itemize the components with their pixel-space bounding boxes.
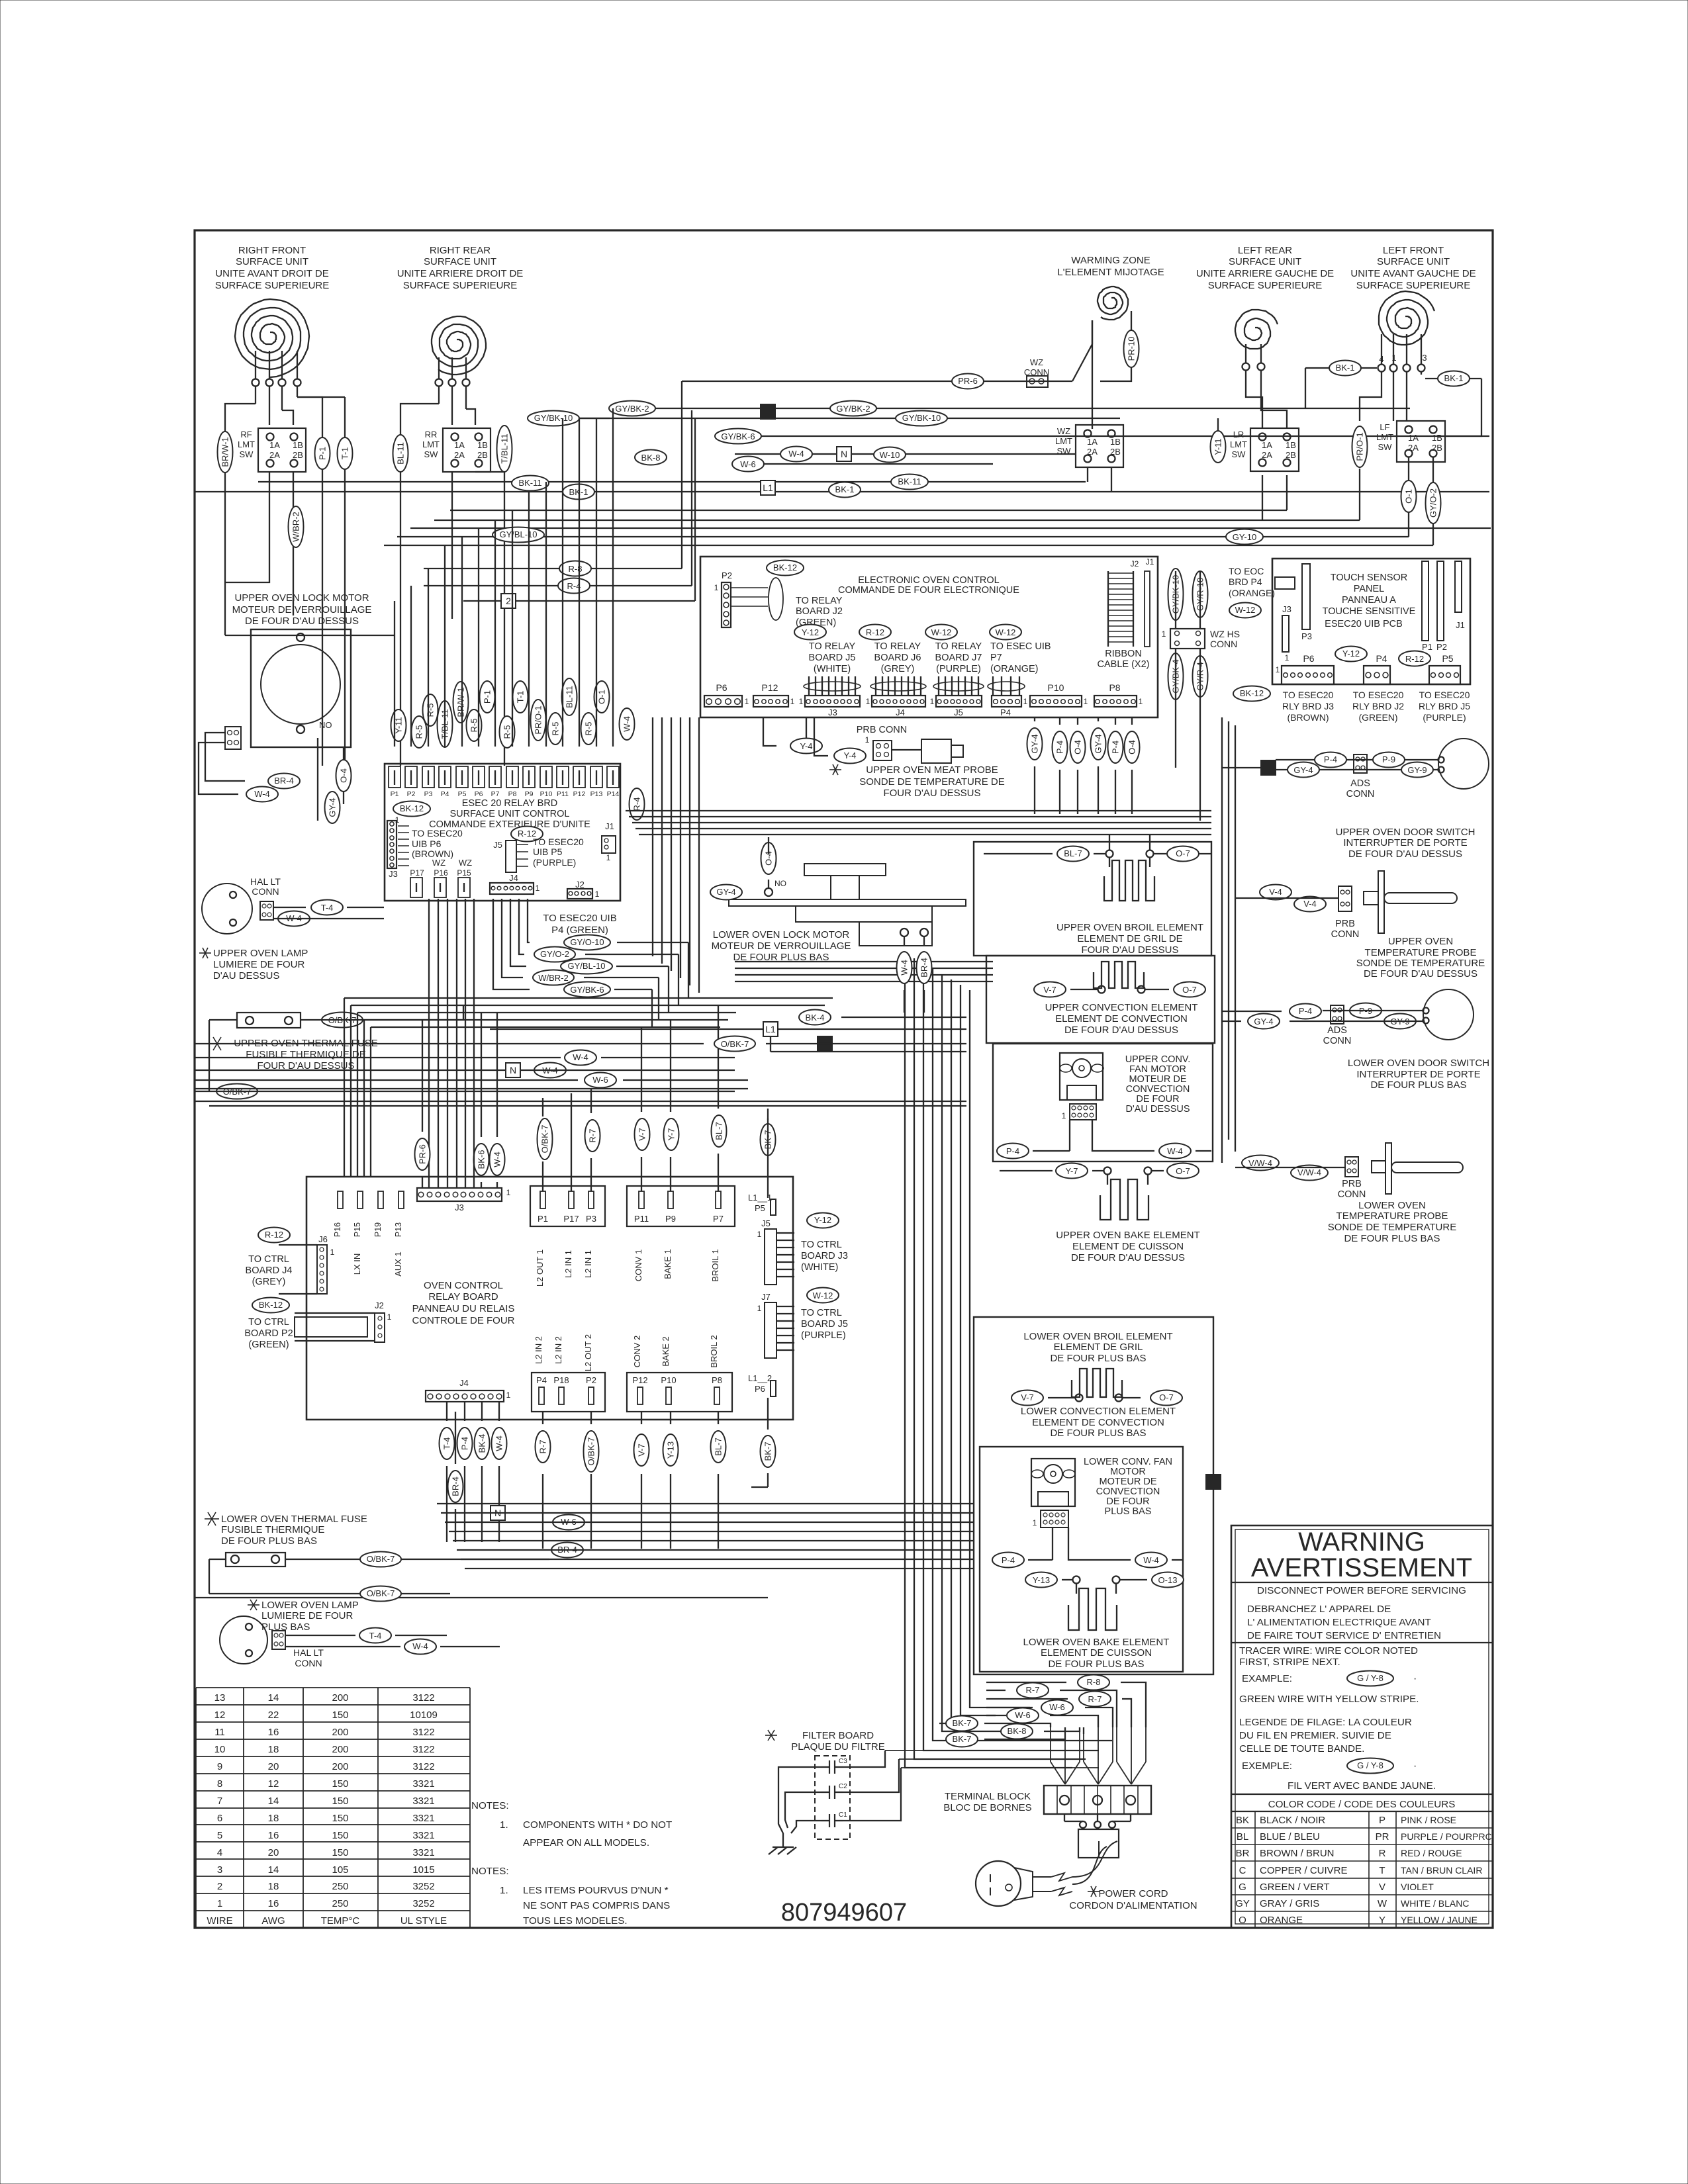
svg-text:RIBBON: RIBBON	[1105, 649, 1142, 659]
svg-text:TO CTRL: TO CTRL	[248, 1317, 289, 1328]
svg-text:PANNEAU DU RELAIS: PANNEAU DU RELAIS	[412, 1303, 515, 1314]
svg-text:C2: C2	[839, 1783, 847, 1790]
svg-text:W: W	[1378, 1898, 1387, 1909]
svg-text:BK-11: BK-11	[518, 478, 541, 488]
svg-text:14: 14	[268, 1796, 279, 1807]
svg-text:R-5: R-5	[502, 725, 512, 739]
svg-text:1: 1	[1276, 665, 1280, 674]
svg-text:BR: BR	[1236, 1848, 1250, 1859]
svg-text:1: 1	[790, 697, 795, 706]
svg-text:RF: RF	[240, 430, 252, 439]
svg-text:150: 150	[332, 1778, 348, 1790]
svg-text:2A: 2A	[269, 450, 280, 460]
svg-text:BK-7: BK-7	[953, 1734, 972, 1744]
svg-text:1: 1	[1285, 653, 1289, 662]
svg-text:L2 IN 2: L2 IN 2	[553, 1336, 563, 1364]
svg-text:16: 16	[268, 1727, 279, 1738]
svg-text:P4: P4	[536, 1375, 547, 1385]
svg-text:(GREY): (GREY)	[881, 664, 915, 674]
svg-text:V/W-4: V/W-4	[1297, 1167, 1321, 1177]
svg-text:WZ: WZ	[1057, 426, 1070, 436]
svg-text:LOWER OVEN BROIL ELEMENT: LOWER OVEN BROIL ELEMENT	[1023, 1331, 1172, 1342]
svg-text:UNITE AVANT DROIT DE: UNITE AVANT DROIT DE	[215, 268, 328, 279]
svg-text:3321: 3321	[412, 1778, 434, 1790]
svg-text:W-4: W-4	[573, 1052, 588, 1062]
svg-text:BK-12: BK-12	[1240, 688, 1264, 698]
svg-text:DE FAIRE TOUT SERVICE D' E: DE FAIRE TOUT SERVICE D' ENTRETIEN	[1247, 1630, 1441, 1641]
svg-text:·: ·	[1413, 1673, 1417, 1684]
svg-text:1: 1	[1084, 697, 1088, 706]
svg-text:FIL VERT AVEC BANDE JAUNE.: FIL VERT AVEC BANDE JAUNE.	[1288, 1780, 1436, 1792]
svg-text:W-4: W-4	[900, 960, 910, 976]
svg-text:J1: J1	[605, 821, 614, 831]
svg-text:P19: P19	[373, 1222, 383, 1237]
svg-text:DE FOUR PLUS BAS: DE FOUR PLUS BAS	[221, 1535, 317, 1547]
svg-text:2: 2	[217, 1881, 222, 1892]
svg-text:RED / ROUGE: RED / ROUGE	[1401, 1848, 1462, 1858]
svg-text:PR/O-1: PR/O-1	[534, 705, 543, 734]
svg-text:150: 150	[332, 1709, 348, 1721]
svg-text:NO: NO	[774, 879, 786, 888]
svg-text:TO ESEC20: TO ESEC20	[1353, 690, 1404, 700]
svg-text:3: 3	[1422, 353, 1427, 363]
svg-text:1: 1	[536, 884, 540, 893]
svg-text:3122: 3122	[412, 1692, 434, 1704]
svg-text:BLOC DE BORNES: BLOC DE BORNES	[943, 1802, 1031, 1813]
svg-text:V-7: V-7	[637, 1443, 647, 1457]
svg-text:TOUS LES MODELES.: TOUS LES MODELES.	[523, 1915, 628, 1927]
svg-text:AWG: AWG	[261, 1915, 285, 1927]
svg-text:1A: 1A	[269, 440, 280, 450]
svg-text:PANEL: PANEL	[1354, 584, 1384, 594]
svg-text:250: 250	[332, 1881, 348, 1892]
svg-text:BAKE 1: BAKE 1	[663, 1249, 673, 1279]
svg-text:3122: 3122	[412, 1744, 434, 1755]
svg-text:807949607: 807949607	[781, 1899, 907, 1927]
svg-text:PINK / ROSE: PINK / ROSE	[1401, 1815, 1456, 1825]
svg-text:J2: J2	[375, 1300, 384, 1310]
svg-text:O/BK-7: O/BK-7	[367, 1588, 395, 1598]
svg-text:NOTES:: NOTES:	[471, 1800, 509, 1811]
svg-text:1: 1	[1023, 697, 1028, 706]
svg-text:P12: P12	[762, 682, 778, 693]
svg-text:LMT: LMT	[1376, 432, 1393, 442]
svg-text:YELLOW / JAUNE: YELLOW / JAUNE	[1401, 1915, 1477, 1925]
svg-text:9: 9	[217, 1761, 222, 1772]
svg-text:TO RELAY: TO RELAY	[809, 641, 856, 652]
svg-text:13: 13	[214, 1692, 226, 1704]
svg-text:W-4: W-4	[788, 449, 804, 459]
svg-text:3321: 3321	[412, 1813, 434, 1824]
svg-text:BK-7: BK-7	[953, 1718, 972, 1728]
svg-text:R-7: R-7	[1026, 1685, 1040, 1695]
svg-text:P-4: P-4	[1006, 1146, 1019, 1156]
svg-text:BRD P4: BRD P4	[1229, 576, 1262, 587]
svg-text:Y-13: Y-13	[1033, 1575, 1050, 1585]
svg-text:GY-4: GY-4	[716, 887, 735, 897]
svg-text:(ORANGE): (ORANGE)	[990, 664, 1039, 674]
svg-text:J2: J2	[575, 880, 585, 889]
svg-text:1: 1	[930, 697, 935, 706]
svg-text:200: 200	[332, 1692, 348, 1704]
svg-text:PRB: PRB	[1335, 919, 1355, 929]
svg-text:GY/BK-10: GY/BK-10	[902, 413, 941, 423]
svg-text:D'AU DESSUS: D'AU DESSUS	[1125, 1104, 1190, 1115]
svg-text:BK-1: BK-1	[1336, 363, 1355, 373]
svg-text:18: 18	[268, 1813, 279, 1824]
svg-text:DE FOUR PLUS BAS: DE FOUR PLUS BAS	[1344, 1233, 1440, 1244]
svg-text:T: T	[1379, 1865, 1385, 1876]
svg-text:P6: P6	[716, 682, 727, 693]
svg-text:11: 11	[214, 1727, 225, 1738]
svg-text:SURFACE UNIT: SURFACE UNIT	[1377, 256, 1450, 267]
svg-text:2B: 2B	[1432, 443, 1442, 453]
svg-text:2A: 2A	[1087, 447, 1098, 457]
svg-text:W-6: W-6	[1049, 1702, 1065, 1712]
svg-text:UNITE ARRIERE DROIT DE: UNITE ARRIERE DROIT DE	[397, 268, 524, 279]
svg-text:PR/O-1: PR/O-1	[1355, 432, 1365, 461]
svg-text:P9: P9	[665, 1214, 676, 1224]
svg-text:COMMANDE DE FOUR ELECTRONIQUE: COMMANDE DE FOUR ELECTRONIQUE	[838, 585, 1019, 596]
svg-text:CONVECTION: CONVECTION	[1096, 1486, 1160, 1497]
svg-text:UIB P6: UIB P6	[412, 839, 442, 849]
svg-text:GY/BK-6: GY/BK-6	[721, 432, 755, 441]
svg-text:LMT: LMT	[1230, 439, 1247, 449]
svg-text:O-7: O-7	[1182, 985, 1197, 995]
svg-text:PR-6: PR-6	[418, 1144, 428, 1164]
svg-text:1B: 1B	[1432, 433, 1442, 443]
svg-text:T/BL-11: T/BL-11	[500, 433, 510, 463]
svg-text:P10: P10	[1048, 682, 1064, 693]
svg-text:BOARD J6: BOARD J6	[874, 653, 921, 663]
svg-text:LUMIERE DE FOUR: LUMIERE DE FOUR	[213, 959, 305, 970]
svg-text:V/W-4: V/W-4	[1248, 1158, 1272, 1168]
svg-text:CONTROLE DE FOUR: CONTROLE DE FOUR	[412, 1315, 514, 1326]
svg-text:LOWER OVEN LOCK MOTOR: LOWER OVEN LOCK MOTOR	[713, 929, 850, 940]
svg-text:GY/BK-2: GY/BK-2	[615, 404, 649, 414]
svg-text:W-4: W-4	[492, 1152, 502, 1167]
svg-text:10109: 10109	[410, 1709, 438, 1721]
svg-text:P3: P3	[424, 790, 433, 798]
svg-text:J5: J5	[761, 1218, 771, 1228]
svg-text:1.: 1.	[500, 1885, 508, 1896]
svg-text:BOARD J7: BOARD J7	[935, 653, 982, 663]
svg-text:ELEMENT DE CUISSON: ELEMENT DE CUISSON	[1041, 1647, 1152, 1659]
svg-text:2B: 2B	[477, 450, 488, 460]
svg-text:T-4: T-4	[321, 903, 334, 913]
svg-text:P12: P12	[632, 1375, 647, 1385]
svg-text:1: 1	[606, 853, 611, 862]
svg-text:UL STYLE: UL STYLE	[400, 1915, 447, 1927]
svg-text:SW: SW	[424, 449, 439, 459]
svg-text:200: 200	[332, 1761, 348, 1772]
svg-text:DE FOUR D'AU DESSUS: DE FOUR D'AU DESSUS	[1348, 848, 1462, 860]
svg-text:P-4: P-4	[1299, 1006, 1312, 1016]
svg-text:P13: P13	[394, 1222, 403, 1237]
svg-text:BK-1: BK-1	[1444, 373, 1464, 383]
svg-text:(GREEN): (GREEN)	[1358, 712, 1397, 723]
svg-text:3321: 3321	[412, 1796, 434, 1807]
svg-text:D'AU DESSUS: D'AU DESSUS	[213, 970, 279, 981]
svg-text:V-4: V-4	[1303, 899, 1317, 909]
svg-text:L2 IN 1: L2 IN 1	[563, 1250, 573, 1278]
svg-text:5: 5	[217, 1830, 222, 1841]
svg-text:BR-4: BR-4	[274, 776, 294, 786]
svg-text:T-4: T-4	[442, 1437, 452, 1450]
svg-text:BL-7: BL-7	[714, 1122, 724, 1140]
svg-text:J3: J3	[1282, 604, 1291, 614]
svg-text:O-7: O-7	[1176, 1166, 1190, 1176]
svg-text:1: 1	[1162, 629, 1166, 639]
svg-text:P3: P3	[1301, 631, 1312, 641]
svg-text:RLY BRD J3: RLY BRD J3	[1282, 701, 1334, 711]
svg-text:GY-4: GY-4	[1030, 734, 1040, 753]
svg-text:W-4: W-4	[254, 789, 270, 799]
svg-text:COMPONENTS WITH * DO NOT: COMPONENTS WITH * DO NOT	[523, 1819, 672, 1831]
svg-text:PLUS BAS: PLUS BAS	[1105, 1506, 1152, 1517]
svg-text:SONDE DE TEMPERATURE DE: SONDE DE TEMPERATURE DE	[859, 776, 1004, 788]
svg-text:BROIL 2: BROIL 2	[709, 1335, 719, 1367]
svg-text:12: 12	[214, 1709, 226, 1721]
svg-text:GY/O-10: GY/O-10	[570, 937, 604, 947]
svg-text:CONN: CONN	[295, 1658, 322, 1668]
svg-text:LEGENDE DE FILAGE: LA COULEUR: LEGENDE DE FILAGE: LA COULEUR	[1239, 1717, 1412, 1728]
svg-text:O-7: O-7	[1159, 1392, 1174, 1402]
svg-text:TO ESEC20: TO ESEC20	[1283, 690, 1334, 700]
svg-text:CORDON D'ALIMENTATION: CORDON D'ALIMENTATION	[1069, 1900, 1197, 1911]
svg-text:4: 4	[217, 1847, 222, 1858]
svg-text:18: 18	[268, 1744, 279, 1755]
svg-text:APPEAR ON ALL MODELS.: APPEAR ON ALL MODELS.	[523, 1837, 649, 1848]
svg-text:BR/W-1: BR/W-1	[220, 437, 230, 467]
svg-text:GY-4: GY-4	[328, 797, 338, 817]
svg-text:P4 (GREEN): P4 (GREEN)	[551, 925, 608, 936]
svg-text:(PURPLE): (PURPLE)	[801, 1330, 846, 1341]
svg-text:UPPER OVEN: UPPER OVEN	[1388, 936, 1453, 947]
svg-text:L1: L1	[765, 1024, 776, 1034]
svg-text:TOUCHE SENSITIVE: TOUCHE SENSITIVE	[1323, 606, 1416, 617]
svg-text:3252: 3252	[412, 1881, 434, 1892]
svg-text:LEFT REAR: LEFT REAR	[1238, 245, 1292, 256]
svg-text:UIB P5: UIB P5	[533, 846, 563, 857]
svg-text:1: 1	[1139, 697, 1143, 706]
svg-text:L2 IN 1: L2 IN 1	[583, 1250, 593, 1278]
svg-text:SURFACE UNIT: SURFACE UNIT	[1229, 256, 1301, 267]
svg-text:INTERRUPTER DE PORTE: INTERRUPTER DE PORTE	[1343, 837, 1467, 848]
svg-text:LOWER OVEN LAMP: LOWER OVEN LAMP	[261, 1600, 359, 1611]
svg-text:L2 OUT 1: L2 OUT 1	[535, 1250, 545, 1287]
svg-text:DEBRANCHEZ L' APPAREL DE: DEBRANCHEZ L' APPAREL DE	[1247, 1604, 1391, 1615]
svg-text:P17: P17	[563, 1214, 579, 1224]
svg-text:UPPER OVEN LAMP: UPPER OVEN LAMP	[213, 948, 308, 959]
svg-text:P-1: P-1	[318, 447, 328, 460]
svg-text:BK-1: BK-1	[835, 484, 855, 494]
svg-text:CONVECTION: CONVECTION	[1126, 1084, 1190, 1095]
svg-text:DU FIL EN PREMIER. SUIVIE: DU FIL EN PREMIER. SUIVIE DE	[1239, 1730, 1391, 1741]
svg-text:RELAY BOARD: RELAY BOARD	[428, 1291, 498, 1302]
svg-text:UPPER CONV.: UPPER CONV.	[1125, 1054, 1191, 1065]
svg-text:TO EOC: TO EOC	[1229, 566, 1264, 576]
svg-text:TO RELAY: TO RELAY	[874, 641, 921, 652]
svg-text:COLOR CODE / CODE DES COULEUR: COLOR CODE / CODE DES COULEURS	[1268, 1799, 1456, 1810]
svg-text:P16: P16	[434, 868, 448, 878]
svg-text:BROIL 1: BROIL 1	[710, 1249, 720, 1281]
svg-text:P: P	[1379, 1815, 1385, 1826]
svg-text:R-5: R-5	[551, 722, 561, 736]
svg-text:LMT: LMT	[422, 439, 440, 449]
svg-text:V-7: V-7	[637, 1128, 647, 1141]
svg-text:BOARD J3: BOARD J3	[801, 1251, 848, 1261]
svg-text:BL-11: BL-11	[565, 686, 575, 708]
svg-text:SURFACE UNIT CONTROL: SURFACE UNIT CONTROL	[449, 809, 569, 819]
svg-text:2A: 2A	[1408, 443, 1419, 453]
svg-text:(PURPLE): (PURPLE)	[533, 857, 576, 868]
svg-text:P5: P5	[1442, 653, 1453, 664]
svg-text:UPPER OVEN BAKE ELEMENT: UPPER OVEN BAKE ELEMENT	[1056, 1230, 1200, 1241]
svg-text:P3: P3	[586, 1214, 596, 1224]
svg-text:P6: P6	[755, 1384, 765, 1394]
svg-text:W/BR-2: W/BR-2	[538, 973, 569, 983]
svg-text:LEFT FRONT: LEFT FRONT	[1383, 245, 1444, 256]
svg-text:WZ: WZ	[1030, 357, 1043, 367]
svg-text:BK-8: BK-8	[641, 453, 661, 463]
svg-text:P11: P11	[634, 1214, 649, 1224]
svg-text:RR: RR	[425, 430, 438, 439]
svg-text:P-9: P-9	[1382, 754, 1395, 764]
svg-text:WZ: WZ	[459, 858, 472, 868]
svg-text:J4: J4	[459, 1378, 469, 1388]
svg-text:J5: J5	[493, 840, 502, 850]
svg-text:20: 20	[268, 1847, 279, 1858]
svg-text:2: 2	[506, 596, 511, 606]
svg-text:EXAMPLE:: EXAMPLE:	[1242, 1673, 1292, 1684]
svg-text:P4: P4	[1000, 707, 1011, 717]
svg-text:P4: P4	[441, 790, 449, 798]
svg-text:P8: P8	[508, 790, 517, 798]
svg-text:P1: P1	[538, 1214, 548, 1224]
svg-text:O/BK-7: O/BK-7	[367, 1554, 395, 1564]
svg-text:SW: SW	[1232, 449, 1246, 459]
svg-text:RIGHT REAR: RIGHT REAR	[430, 245, 491, 256]
svg-text:BL-7: BL-7	[1064, 848, 1082, 858]
svg-text:LF: LF	[1380, 422, 1389, 432]
svg-text:20: 20	[268, 1761, 279, 1772]
svg-text:3122: 3122	[412, 1761, 434, 1772]
svg-text:WARNING: WARNING	[1298, 1527, 1425, 1557]
svg-text:P2: P2	[407, 790, 416, 798]
svg-text:200: 200	[332, 1727, 348, 1738]
svg-text:P5: P5	[755, 1203, 765, 1213]
svg-text:P-4: P-4	[1111, 741, 1121, 754]
svg-text:J5: J5	[954, 707, 963, 717]
svg-text:W-6: W-6	[1015, 1710, 1031, 1720]
svg-text:P12: P12	[573, 790, 586, 798]
svg-text:PANNEAU A: PANNEAU A	[1342, 595, 1396, 606]
svg-text:150: 150	[332, 1847, 348, 1858]
svg-text:SURFACE UNIT: SURFACE UNIT	[424, 256, 496, 267]
svg-text:DE FOUR D'AU DESSUS: DE FOUR D'AU DESSUS	[1364, 968, 1477, 979]
svg-text:BL-11: BL-11	[396, 442, 406, 465]
svg-text:BK: BK	[1236, 1815, 1249, 1826]
svg-text:LES ITEMS POURVUS D'NUN *: LES ITEMS POURVUS D'NUN *	[523, 1885, 669, 1896]
svg-text:DE FOUR D'AU DESSUS: DE FOUR D'AU DESSUS	[245, 615, 359, 627]
svg-text:V-7: V-7	[1043, 985, 1056, 995]
svg-text:L1__2: L1__2	[748, 1373, 772, 1383]
svg-text:SURFACE UNIT: SURFACE UNIT	[236, 256, 308, 267]
svg-text:ELEMENT DE GRIL: ELEMENT DE GRIL	[1054, 1342, 1143, 1353]
svg-text:BOARD P2: BOARD P2	[244, 1328, 293, 1339]
svg-text:J4: J4	[509, 873, 518, 883]
svg-text:150: 150	[332, 1830, 348, 1841]
svg-text:EXEMPLE:: EXEMPLE:	[1242, 1760, 1292, 1772]
svg-text:Y-4: Y-4	[843, 751, 856, 760]
svg-text:P7: P7	[990, 653, 1002, 663]
svg-text:1: 1	[506, 1188, 511, 1197]
svg-text:BROWN / BRUN: BROWN / BRUN	[1260, 1848, 1335, 1859]
svg-text:DISCONNECT POWER BEFORE SERVIC: DISCONNECT POWER BEFORE SERVICING	[1257, 1585, 1466, 1596]
svg-text:P15: P15	[457, 868, 471, 878]
svg-text:CABLE (X2): CABLE (X2)	[1098, 659, 1150, 670]
svg-text:2A: 2A	[1262, 450, 1272, 460]
svg-text:(PURPLE): (PURPLE)	[936, 664, 981, 674]
svg-text:TO CTRL: TO CTRL	[801, 1308, 842, 1318]
svg-text:1A: 1A	[1262, 440, 1272, 450]
svg-text:LOWER CONV. FAN: LOWER CONV. FAN	[1084, 1457, 1172, 1467]
svg-text:W-4: W-4	[1167, 1146, 1183, 1156]
svg-text:GREEN / VERT: GREEN / VERT	[1260, 1882, 1330, 1893]
svg-text:Y: Y	[1379, 1915, 1385, 1926]
svg-text:V-7: V-7	[1021, 1392, 1034, 1402]
svg-text:BK-8: BK-8	[1008, 1726, 1027, 1736]
svg-text:J2: J2	[1131, 559, 1139, 569]
svg-text:NE SONT PAS COMPRIS DANS: NE SONT PAS COMPRIS DANS	[523, 1900, 670, 1911]
svg-text:R-8: R-8	[569, 564, 583, 574]
svg-text:2A: 2A	[454, 450, 465, 460]
svg-text:1: 1	[1391, 353, 1396, 363]
svg-text:O-4: O-4	[339, 768, 349, 783]
svg-text:J3: J3	[389, 869, 398, 879]
svg-text:Y-11: Y-11	[1213, 438, 1223, 455]
svg-text:250: 250	[332, 1898, 348, 1909]
svg-text:1B: 1B	[1286, 440, 1296, 450]
svg-text:ELEMENT DE CONVECTION: ELEMENT DE CONVECTION	[1055, 1013, 1188, 1024]
svg-text:PRB: PRB	[1342, 1179, 1362, 1189]
svg-text:AUX 1: AUX 1	[393, 1251, 403, 1277]
svg-text:MOTEUR DE: MOTEUR DE	[1129, 1074, 1187, 1085]
svg-text:CONN: CONN	[252, 886, 279, 897]
svg-text:P10: P10	[540, 790, 553, 798]
svg-text:Y-7: Y-7	[667, 1128, 677, 1140]
svg-text:LOWER OVEN DOOR SWITCH: LOWER OVEN DOOR SWITCH	[1348, 1058, 1489, 1069]
svg-text:UPPER CONVECTION ELEMENT: UPPER CONVECTION ELEMENT	[1045, 1002, 1198, 1013]
svg-text:W-10: W-10	[880, 450, 900, 460]
svg-text:Y-12: Y-12	[802, 627, 819, 637]
svg-text:R-8: R-8	[1087, 1677, 1101, 1687]
svg-text:R-12: R-12	[1405, 654, 1424, 664]
svg-text:P2: P2	[722, 570, 732, 580]
svg-text:MOTEUR DE VERROUILLAGE: MOTEUR DE VERROUILLAGE	[232, 604, 372, 615]
svg-text:(GREY): (GREY)	[252, 1277, 286, 1287]
svg-text:3252: 3252	[412, 1898, 434, 1909]
svg-text:G / Y-8: G / Y-8	[1357, 1760, 1383, 1770]
svg-text:L1: L1	[763, 482, 773, 493]
svg-text:105: 105	[332, 1864, 348, 1876]
svg-text:3321: 3321	[412, 1830, 434, 1841]
svg-text:T-1: T-1	[340, 447, 350, 460]
svg-text:UPPER OVEN DOOR SWITCH: UPPER OVEN DOOR SWITCH	[1336, 827, 1476, 838]
svg-text:C1: C1	[839, 1811, 847, 1819]
svg-text:J3: J3	[828, 707, 837, 717]
